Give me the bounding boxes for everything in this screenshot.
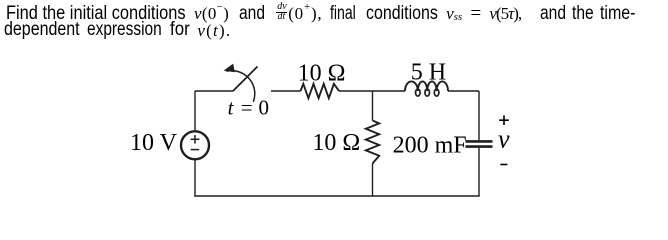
wire left branch above source [194, 91, 196, 131]
capacitor C1 top plate [466, 140, 493, 143]
svg-text:t=0: t=0 [228, 96, 269, 120]
voltage source V1 circle [181, 131, 209, 159]
switch arrowhead [224, 64, 235, 73]
svg-text:10 V: 10 V [130, 130, 178, 156]
wire middle branch lower [372, 164, 374, 197]
svg-text:200 mF: 200 mF [393, 133, 467, 159]
fraction dv/dt denominator [278, 12, 286, 21]
svg-text:10 Ω: 10 Ω [298, 60, 346, 86]
wire bottom [194, 195, 479, 197]
wire middle branch upper [372, 91, 374, 121]
inductor L1 loop 3 [434, 89, 439, 96]
inductor L1 humps (5 H) [405, 81, 448, 91]
inductor L1 loop 1 [416, 89, 421, 96]
switch blade [233, 67, 258, 92]
voltage source minus sign [191, 149, 199, 151]
label plus (capacitor polarity) [499, 115, 509, 125]
label minus (capacitor polarity) [500, 164, 507, 166]
wire top-left horizontal (source corner to switch pivot) [195, 90, 233, 92]
switch motion arc [226, 71, 254, 102]
wire left branch below source [194, 159, 196, 196]
fraction dv/dt bar [276, 12, 287, 13]
wire inductor to top-right corner [448, 90, 479, 92]
voltage source plus sign [191, 135, 200, 144]
inductor L1 loop 2 [425, 89, 430, 96]
resistor R1 zigzag (top, 10 ohm) [301, 84, 340, 98]
wire resistor R1 to inductor, node at middle branch [339, 90, 405, 92]
svg-text:5 H: 5 H [411, 60, 446, 86]
capacitor C1 bottom plate [466, 145, 493, 148]
problem statement line 2 [4, 20, 80, 39]
resistor R2 zigzag (middle, 10 ohm) [366, 121, 379, 164]
wire switch contact to resistor R1 [271, 90, 301, 92]
svg-text:10 Ω: 10 Ω [312, 130, 360, 156]
wire right branch upper [478, 91, 480, 140]
svg-text:v: v [498, 125, 510, 154]
fraction dv/dt numerator [277, 2, 286, 11]
wire right branch lower [478, 148, 480, 196]
problem statement line 1 [6, 4, 186, 23]
